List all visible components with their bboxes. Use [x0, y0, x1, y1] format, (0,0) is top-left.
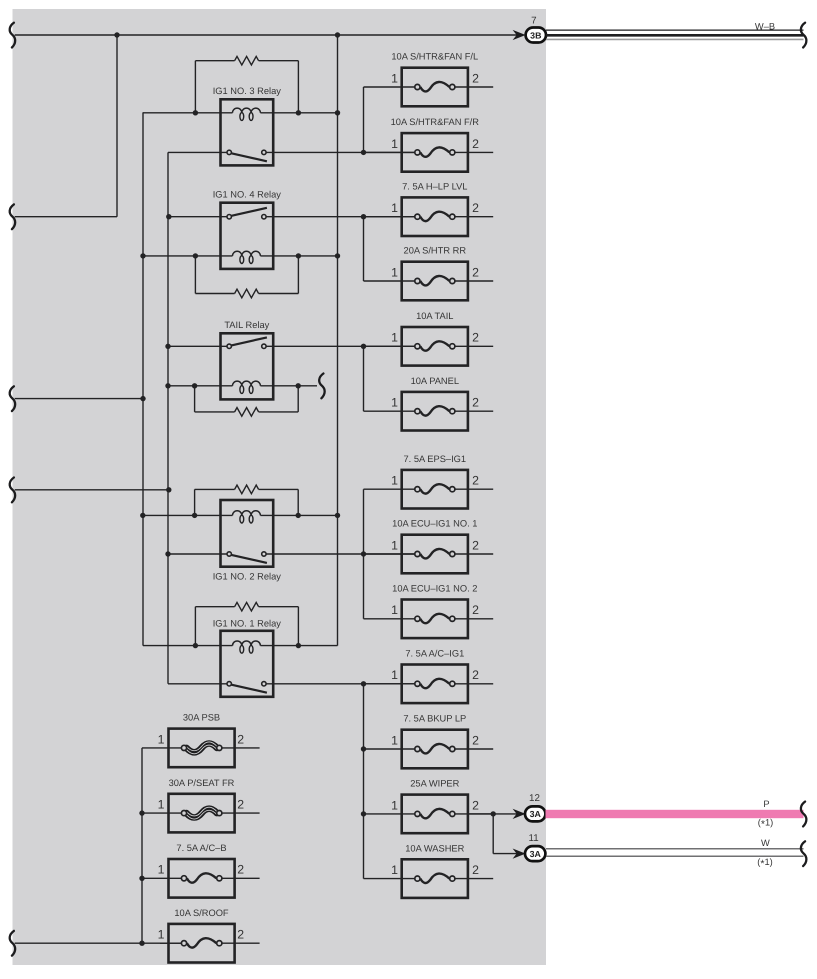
svg-text:10A WASHER: 10A WASHER [405, 843, 464, 853]
svg-text:30A P/SEAT FR: 30A P/SEAT FR [169, 778, 235, 788]
svg-text:1: 1 [391, 798, 398, 812]
svg-text:1: 1 [391, 474, 398, 488]
svg-text:1: 1 [391, 71, 398, 85]
svg-text:IG1 NO. 4 Relay: IG1 NO. 4 Relay [213, 189, 282, 199]
svg-text:10A ECU–IG1 NO. 1: 10A ECU–IG1 NO. 1 [392, 519, 477, 529]
svg-text:10A TAIL: 10A TAIL [416, 311, 453, 321]
svg-text:W–B: W–B [755, 21, 775, 31]
svg-text:1: 1 [391, 331, 398, 345]
svg-text:1: 1 [158, 863, 165, 877]
svg-text:1: 1 [158, 798, 165, 812]
svg-text:1: 1 [391, 538, 398, 552]
svg-text:(*1): (*1) [758, 818, 774, 831]
svg-text:1: 1 [391, 396, 398, 410]
svg-text:3B: 3B [530, 30, 541, 40]
svg-text:11: 11 [529, 833, 539, 844]
svg-text:10A S/HTR&FAN F/R: 10A S/HTR&FAN F/R [391, 117, 480, 127]
svg-text:25A WIPER: 25A WIPER [410, 779, 459, 789]
svg-text:1: 1 [391, 733, 398, 747]
svg-text:7. 5A EPS–IG1: 7. 5A EPS–IG1 [404, 454, 467, 464]
svg-text:2: 2 [472, 137, 479, 151]
svg-text:2: 2 [472, 668, 479, 682]
svg-text:2: 2 [237, 928, 244, 942]
svg-text:1: 1 [391, 603, 398, 617]
svg-text:2: 2 [472, 863, 479, 877]
svg-text:2: 2 [472, 798, 479, 812]
svg-text:20A S/HTR RR: 20A S/HTR RR [404, 246, 467, 256]
svg-text:1: 1 [158, 928, 165, 942]
svg-text:1: 1 [391, 137, 398, 151]
svg-text:2: 2 [472, 603, 479, 617]
svg-text:7. 5A A/C–B: 7. 5A A/C–B [176, 843, 226, 853]
svg-text:1: 1 [158, 732, 165, 746]
svg-text:7. 5A BKUP LP: 7. 5A BKUP LP [403, 714, 466, 724]
svg-text:1: 1 [391, 668, 398, 682]
svg-text:2: 2 [472, 474, 479, 488]
svg-text:IG1 NO. 1 Relay: IG1 NO. 1 Relay [213, 618, 282, 628]
svg-text:10A S/HTR&FAN F/L: 10A S/HTR&FAN F/L [391, 52, 478, 62]
svg-text:10A S/ROOF: 10A S/ROOF [174, 908, 229, 918]
svg-text:2: 2 [237, 863, 244, 877]
svg-text:7. 5A H–LP LVL: 7. 5A H–LP LVL [402, 181, 467, 191]
svg-text:2: 2 [472, 331, 479, 345]
svg-text:P: P [763, 799, 769, 809]
svg-text:2: 2 [472, 396, 479, 410]
svg-text:W: W [761, 838, 770, 848]
svg-text:2: 2 [237, 732, 244, 746]
svg-text:IG1 NO. 3 Relay: IG1 NO. 3 Relay [213, 86, 282, 96]
svg-text:30A PSB: 30A PSB [183, 713, 220, 723]
svg-text:3A: 3A [530, 849, 542, 859]
svg-text:3A: 3A [530, 809, 542, 819]
svg-text:12: 12 [529, 793, 540, 804]
svg-text:2: 2 [472, 201, 479, 215]
svg-text:2: 2 [472, 71, 479, 85]
svg-text:10A PANEL: 10A PANEL [411, 376, 459, 386]
svg-text:10A ECU–IG1 NO. 2: 10A ECU–IG1 NO. 2 [392, 584, 477, 594]
svg-text:IG1 NO. 2 Relay: IG1 NO. 2 Relay [213, 571, 282, 581]
svg-text:2: 2 [472, 538, 479, 552]
svg-text:7: 7 [531, 16, 536, 27]
svg-text:7. 5A A/C–IG1: 7. 5A A/C–IG1 [405, 649, 464, 659]
svg-text:TAIL Relay: TAIL Relay [224, 320, 269, 330]
svg-text:2: 2 [237, 798, 244, 812]
svg-text:(*1): (*1) [757, 857, 773, 870]
svg-text:1: 1 [391, 201, 398, 215]
svg-text:2: 2 [472, 733, 479, 747]
svg-text:2: 2 [472, 265, 479, 279]
svg-text:1: 1 [391, 265, 398, 279]
svg-text:1: 1 [391, 863, 398, 877]
